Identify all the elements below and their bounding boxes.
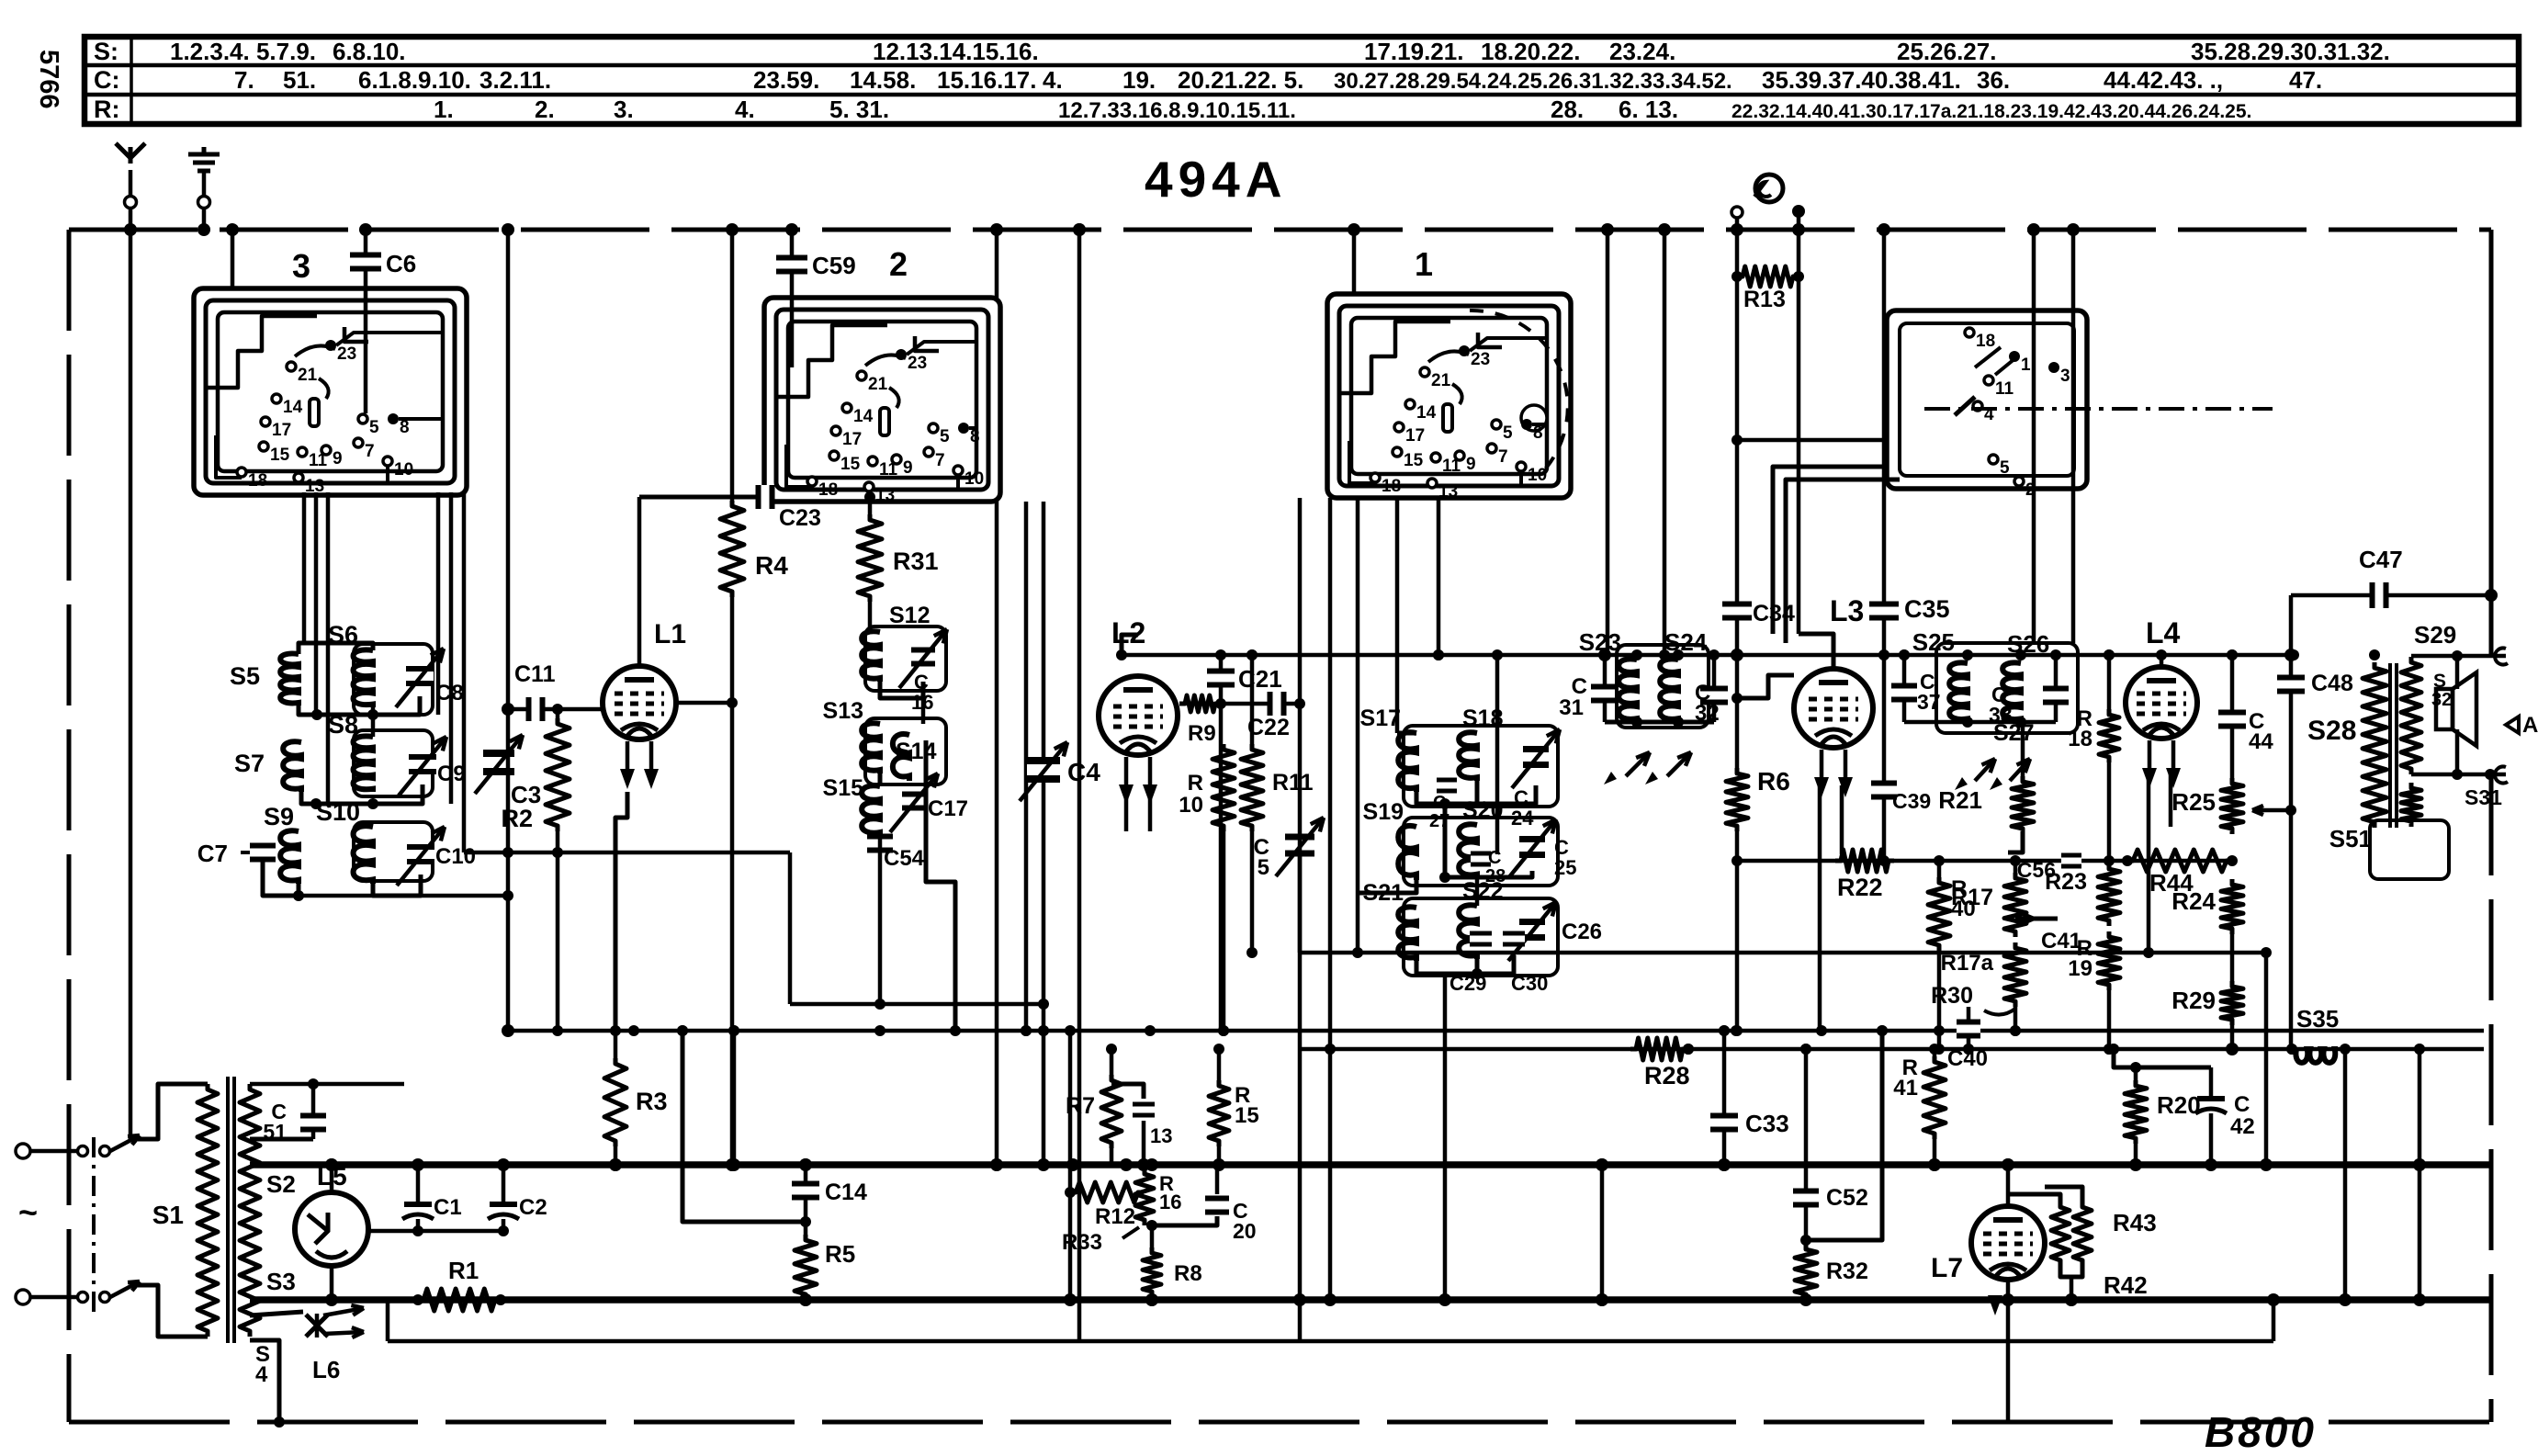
trimmer C3 variable bbox=[483, 757, 514, 768]
lamp terminals bbox=[1731, 207, 1743, 218]
wire R10 bottom bbox=[1222, 831, 1226, 1031]
wire x2494 bbox=[2289, 595, 2294, 1049]
coil bank wiring bbox=[299, 643, 373, 654]
wire L4 cathode bbox=[2147, 772, 2151, 953]
junction dots HT bus y1268 bbox=[325, 1158, 338, 1171]
resistor R30 wiper bbox=[1984, 1009, 2015, 1015]
resistor R15 bbox=[1217, 1049, 1222, 1080]
svg-text:17: 17 bbox=[1405, 426, 1425, 446]
svg-text:23: 23 bbox=[908, 354, 927, 373]
svg-text:C48: C48 bbox=[2311, 671, 2353, 696]
svg-text:R7: R7 bbox=[1066, 1093, 1095, 1119]
resistor R18 bbox=[2107, 655, 2112, 709]
svg-text:9: 9 bbox=[1466, 455, 1476, 474]
resistor R9 inline bbox=[1179, 695, 1221, 712]
svg-text:R33: R33 bbox=[1062, 1230, 1102, 1255]
capacitor C32 bbox=[1712, 655, 1717, 722]
svg-text:R28: R28 bbox=[1644, 1062, 1690, 1089]
wire y975 row bbox=[299, 894, 508, 898]
trimmer C25 bbox=[1519, 842, 1545, 852]
coil S24 bbox=[1660, 659, 1678, 722]
transformer wires bbox=[2373, 655, 2377, 660]
switch unit 4 box bbox=[1887, 310, 2087, 489]
wire x2467 bbox=[2264, 953, 2269, 1165]
svg-text:A: A bbox=[2522, 713, 2538, 738]
wire bus y1142 bbox=[1300, 1047, 2484, 1052]
svg-text:C2: C2 bbox=[519, 1195, 547, 1220]
trimmer C9 bbox=[409, 760, 436, 769]
S23 S24 wiring bbox=[1605, 720, 1714, 725]
resistor R13 bbox=[1737, 266, 1799, 287]
coil box S12 C16 bbox=[865, 626, 946, 691]
svg-text:35.28.29.30.31.32.: 35.28.29.30.31.32. bbox=[2191, 38, 2390, 65]
svg-text:14: 14 bbox=[1416, 403, 1437, 423]
capacitor C11 bbox=[508, 707, 603, 712]
wire L1 anode top bbox=[637, 497, 642, 667]
svg-text:C10: C10 bbox=[435, 844, 476, 869]
capacitor C6 bbox=[364, 230, 368, 413]
transformer core bbox=[2388, 663, 2392, 828]
wire C1 C2 bottom bbox=[367, 1229, 503, 1234]
transformer core bbox=[226, 1077, 230, 1343]
resistor R41 bbox=[1933, 1049, 1937, 1056]
unit1 block wiring bbox=[1397, 731, 1416, 736]
wire coil bank bottom right bbox=[464, 851, 790, 855]
svg-text:19: 19 bbox=[2068, 956, 2092, 981]
wire lamp left down bbox=[1735, 218, 1740, 655]
svg-text:4.: 4. bbox=[735, 96, 755, 123]
svg-text:4: 4 bbox=[255, 1362, 268, 1387]
switch contacts upper bbox=[78, 1146, 88, 1157]
coil box S19 S20 bbox=[1404, 818, 1558, 886]
svg-text:~: ~ bbox=[18, 1193, 38, 1231]
svg-text:1: 1 bbox=[2021, 356, 2031, 375]
capacitor C38 bbox=[2054, 655, 2059, 722]
svg-text:C26: C26 bbox=[1562, 920, 1602, 944]
coil box S23 S24 bbox=[1617, 645, 1709, 728]
transformer secondary bbox=[240, 1084, 260, 1337]
svg-text:R12: R12 bbox=[1095, 1204, 1135, 1229]
svg-text:494A: 494A bbox=[1145, 151, 1287, 208]
svg-text:L4: L4 bbox=[2146, 616, 2181, 649]
svg-text:L1: L1 bbox=[654, 619, 686, 649]
capacitor C42 bbox=[2209, 1067, 2214, 1098]
tube L1 bbox=[603, 666, 676, 739]
junction dots y1122 bbox=[552, 1025, 563, 1036]
svg-text:14: 14 bbox=[853, 407, 874, 426]
resistor R17a bbox=[2004, 942, 2026, 1007]
svg-text:8: 8 bbox=[1533, 423, 1543, 443]
svg-text:5: 5 bbox=[1258, 855, 1269, 880]
svg-text:20.21.22. 5.: 20.21.22. 5. bbox=[1178, 66, 1303, 94]
wire x2475 corner bbox=[2272, 1300, 2276, 1341]
tube L5 rectifier bbox=[330, 1165, 334, 1194]
S51 enclosure bbox=[2370, 820, 2449, 879]
svg-text:L7: L7 bbox=[1931, 1253, 1963, 1283]
coil S22 bbox=[1459, 905, 1477, 959]
capacitor C31 bbox=[1603, 655, 1607, 722]
svg-text:L6: L6 bbox=[312, 1356, 340, 1383]
capacitor C5 variable bbox=[1285, 841, 1314, 851]
resistor R28 bbox=[1630, 1038, 1688, 1060]
switch contacts lower bbox=[78, 1292, 88, 1303]
svg-text:3.: 3. bbox=[614, 96, 634, 123]
capacitor C1 bbox=[416, 1165, 421, 1203]
svg-text:18: 18 bbox=[1382, 477, 1401, 496]
resistor R8 bbox=[1150, 1225, 1155, 1247]
svg-text:S7: S7 bbox=[234, 750, 265, 777]
S25 block wiring bbox=[1904, 720, 2056, 725]
wire C47 row bbox=[2291, 593, 2491, 598]
svg-text:R3: R3 bbox=[636, 1088, 668, 1115]
trimmer C24 bbox=[1523, 752, 1549, 762]
wire S29 bottom row bbox=[2411, 773, 2506, 777]
wire secondary top bbox=[250, 1082, 404, 1087]
svg-text:6.8.10.: 6.8.10. bbox=[333, 38, 406, 65]
svg-text:35.39.37.40.38.41.: 35.39.37.40.38.41. bbox=[1762, 66, 1961, 94]
svg-text:R42: R42 bbox=[2104, 1271, 2148, 1299]
coil box S8 C9 bbox=[354, 730, 433, 796]
wire unit1 to bus bbox=[1352, 230, 1357, 294]
wires coil bank verticals up to unit3 bbox=[302, 492, 307, 643]
resistor R2 bbox=[556, 709, 560, 718]
wire L1 plate to x797 bbox=[676, 701, 732, 705]
capacitor C40 bbox=[1967, 1007, 1971, 1049]
svg-text:17.19.21.: 17.19.21. bbox=[1364, 38, 1463, 65]
svg-text:9: 9 bbox=[333, 449, 343, 468]
border right dashed bbox=[2489, 230, 2494, 656]
IF block wiring bbox=[868, 602, 873, 632]
coil S10 bbox=[354, 826, 373, 884]
capacitor C47 bbox=[2375, 582, 2384, 608]
parts table frame bbox=[85, 37, 2519, 124]
output transformer S28 primary bbox=[2363, 662, 2386, 828]
capacitor C21 bbox=[1219, 655, 1224, 1031]
svg-text:15: 15 bbox=[1235, 1103, 1259, 1128]
wire C52 jog bbox=[1806, 1031, 1882, 1240]
wire grid bus y713 bbox=[1122, 653, 2291, 658]
coil S18 bbox=[1459, 732, 1477, 781]
resistor R4 bbox=[730, 230, 735, 501]
border bottom dashed bbox=[69, 1420, 2491, 1425]
svg-text:R29: R29 bbox=[2171, 987, 2216, 1014]
svg-text:6. 13.: 6. 13. bbox=[1619, 96, 1678, 123]
wire C31 feed bbox=[1606, 230, 1610, 655]
svg-text:10: 10 bbox=[1528, 466, 1547, 485]
svg-text:4.: 4. bbox=[1043, 66, 1063, 94]
pilot lamp L6 bbox=[250, 1312, 303, 1315]
wire x1136 bbox=[1042, 1031, 1046, 1165]
svg-text:11: 11 bbox=[1995, 379, 2014, 399]
svg-text:S29: S29 bbox=[2414, 621, 2456, 649]
svg-text:R1: R1 bbox=[448, 1257, 479, 1284]
resistor R12 bbox=[1070, 1182, 1144, 1202]
capacitor C2 bbox=[502, 1165, 506, 1203]
resistor R22 bbox=[1835, 850, 1894, 872]
tube L3 bbox=[1799, 634, 1833, 670]
wire x1117 bbox=[1024, 502, 1029, 1031]
wire x2553 bbox=[2343, 1049, 2348, 1300]
svg-text:R6: R6 bbox=[1757, 767, 1790, 796]
wire S4 to bottom bbox=[250, 1340, 279, 1422]
svg-text:30.27.28.29.54.24.25.26.31.32.: 30.27.28.29.54.24.25.26.31.32.33.34.52. bbox=[1334, 69, 1732, 94]
svg-text:C23: C23 bbox=[779, 505, 821, 531]
svg-text:23: 23 bbox=[337, 344, 356, 364]
svg-text:C: C bbox=[1488, 848, 1501, 868]
svg-text:23.59.: 23.59. bbox=[753, 66, 819, 94]
wire unit4 bottom feed bbox=[1737, 438, 1887, 443]
svg-text:1.: 1. bbox=[434, 96, 454, 123]
trimmer C8 bbox=[406, 672, 434, 681]
svg-text:R43: R43 bbox=[2113, 1209, 2157, 1236]
svg-text:C7: C7 bbox=[197, 840, 228, 867]
svg-text:S5: S5 bbox=[230, 662, 260, 690]
capacitor C13 bbox=[1111, 1084, 1144, 1099]
wire x799 bbox=[732, 1031, 737, 1165]
coil box S25 S26 bbox=[1936, 643, 2078, 733]
svg-text:6.1.8.9.10.: 6.1.8.9.10. bbox=[358, 66, 471, 94]
svg-text:10: 10 bbox=[1179, 793, 1203, 818]
resistor R16 bbox=[1143, 1165, 1147, 1168]
svg-text:C39: C39 bbox=[1892, 789, 1931, 813]
svg-text:C21: C21 bbox=[1238, 665, 1282, 693]
capacitor C41 wiper bbox=[2015, 917, 2058, 921]
svg-text:C33: C33 bbox=[1745, 1110, 1789, 1137]
svg-text:C35: C35 bbox=[1904, 595, 1950, 623]
speaker terminal A bbox=[2506, 717, 2519, 733]
coil S15 bbox=[862, 785, 880, 836]
junction dots top bus bbox=[1073, 223, 1086, 236]
capacitor C7 bbox=[250, 849, 276, 857]
resistor R25 potentiometer bbox=[2221, 778, 2243, 834]
capacitor C37 bbox=[1902, 655, 1907, 722]
ground symbol bbox=[202, 173, 207, 224]
svg-text:S51: S51 bbox=[2329, 825, 2372, 852]
svg-text:R2: R2 bbox=[501, 805, 533, 832]
svg-text:S2: S2 bbox=[266, 1170, 296, 1198]
svg-text:L2: L2 bbox=[1111, 616, 1145, 649]
svg-text:S23: S23 bbox=[1579, 628, 1621, 656]
antenna terminal bbox=[129, 170, 133, 197]
svg-text:18.20.22.: 18.20.22. bbox=[1481, 38, 1580, 65]
wire x1165 long bbox=[1068, 1031, 1073, 1300]
coil S14 bbox=[893, 734, 909, 781]
svg-text:17: 17 bbox=[842, 430, 862, 449]
svg-text:C30: C30 bbox=[1511, 972, 1548, 995]
coil S21 bbox=[1398, 907, 1416, 961]
svg-text:R22: R22 bbox=[1837, 874, 1883, 901]
coil S6 bbox=[354, 649, 373, 707]
svg-text:R13: R13 bbox=[1743, 287, 1786, 312]
capacitor C29 bbox=[1470, 936, 1492, 942]
wire C23 row bbox=[639, 495, 765, 500]
svg-text:L3: L3 bbox=[1830, 594, 1864, 627]
svg-text:R25: R25 bbox=[2171, 788, 2216, 816]
wires unit4 routing left bbox=[1773, 467, 1887, 634]
wire x1744 down bbox=[1600, 1165, 1605, 1300]
svg-text:15: 15 bbox=[1404, 451, 1424, 470]
svg-text:R32: R32 bbox=[1826, 1258, 1868, 1284]
wires switch to transformer bbox=[138, 1084, 208, 1139]
switch unit 1 box bbox=[1327, 294, 1571, 498]
wires unit4 to bus bbox=[2032, 230, 2036, 643]
tube L7 bbox=[1971, 1206, 2045, 1280]
capacitor C28 bbox=[1471, 856, 1491, 863]
svg-text:51.: 51. bbox=[283, 66, 316, 94]
svg-text:C17: C17 bbox=[928, 796, 968, 821]
svg-text:44.42.43. .,: 44.42.43. ., bbox=[2104, 66, 2223, 94]
capacitor C59 bbox=[790, 230, 795, 367]
wire lamp right down bbox=[1797, 211, 1801, 634]
svg-text:7.: 7. bbox=[234, 66, 254, 94]
speaker S32 bbox=[2436, 689, 2453, 729]
svg-text:S:: S: bbox=[94, 38, 118, 65]
resistor R7 bbox=[1110, 1049, 1114, 1075]
resistor R21 bbox=[2021, 722, 2025, 776]
wire y1093 to x1136 bbox=[790, 1002, 1043, 1007]
wire L3 cathode bbox=[1818, 785, 1822, 1031]
svg-text:9: 9 bbox=[903, 458, 913, 478]
wire x1136 long bbox=[1042, 502, 1046, 1031]
svg-text:R23: R23 bbox=[2045, 869, 2087, 895]
resistor R31 bbox=[868, 497, 873, 514]
svg-text:S17: S17 bbox=[1360, 705, 1401, 731]
svg-text:S22: S22 bbox=[1462, 878, 1503, 904]
capacitor C30 bbox=[1503, 936, 1525, 942]
L3 wires bbox=[1737, 675, 1794, 698]
svg-text:S15: S15 bbox=[823, 775, 864, 801]
resistor R23 bbox=[2107, 762, 2112, 863]
wire L5 to R1 row bbox=[330, 1266, 334, 1300]
wire C54 down bbox=[878, 863, 883, 1004]
tube L2 bbox=[1099, 676, 1178, 755]
svg-text:R31: R31 bbox=[893, 547, 939, 575]
coil box S10 C10 bbox=[354, 822, 433, 881]
resistor R1 bbox=[418, 1289, 501, 1311]
svg-text:C59: C59 bbox=[812, 252, 856, 279]
svg-text:20: 20 bbox=[1233, 1219, 1257, 1243]
coil S13 bbox=[862, 723, 880, 773]
svg-text:44: 44 bbox=[2249, 729, 2273, 754]
svg-text:15: 15 bbox=[840, 455, 861, 474]
svg-text:R:: R: bbox=[94, 96, 120, 123]
svg-text:S24: S24 bbox=[1664, 628, 1708, 656]
svg-text:S26: S26 bbox=[2007, 630, 2049, 658]
svg-text:28.: 28. bbox=[1551, 96, 1584, 123]
svg-text:18: 18 bbox=[1976, 332, 1995, 351]
svg-text:19.: 19. bbox=[1122, 66, 1156, 94]
trimmer C10 bbox=[407, 850, 434, 859]
svg-text:21: 21 bbox=[868, 375, 888, 394]
wire bus y1037 bbox=[1300, 951, 2266, 955]
coil S17 bbox=[1398, 732, 1416, 792]
junction dots grid bus y713 bbox=[1116, 649, 1127, 660]
resistor R44 bbox=[2127, 850, 2232, 872]
svg-text:C47: C47 bbox=[2359, 546, 2403, 573]
svg-text:17: 17 bbox=[272, 421, 291, 440]
svg-text:12.13.14.15.16.: 12.13.14.15.16. bbox=[873, 38, 1039, 65]
svg-text:C1: C1 bbox=[434, 1195, 462, 1220]
svg-text:3: 3 bbox=[292, 247, 310, 285]
svg-text:R5: R5 bbox=[825, 1240, 855, 1268]
svg-text:8: 8 bbox=[970, 427, 980, 446]
capacitor C39 bbox=[1882, 655, 1887, 861]
coil S23 bbox=[1619, 659, 1637, 722]
svg-text:36.: 36. bbox=[1977, 66, 2010, 94]
svg-text:3.2.11.: 3.2.11. bbox=[479, 66, 551, 94]
svg-text:25: 25 bbox=[1554, 856, 1576, 879]
svg-text:2: 2 bbox=[889, 245, 908, 283]
capacitor C52 bbox=[1804, 1049, 1809, 1244]
wire S24 feed bbox=[1663, 230, 1667, 655]
coil S9 bbox=[280, 830, 299, 884]
svg-text:R4: R4 bbox=[755, 551, 788, 580]
svg-text:S25: S25 bbox=[1912, 628, 1955, 656]
resistor R17 bbox=[2013, 861, 2018, 873]
wire HT bus y1268 bbox=[250, 1161, 2491, 1168]
resistor R24 bbox=[2221, 879, 2243, 934]
svg-text:R9: R9 bbox=[1188, 721, 1216, 746]
coil S25 bbox=[1949, 662, 1968, 722]
capacitor C20 bbox=[1215, 1165, 1220, 1194]
svg-text:R30: R30 bbox=[1931, 983, 1973, 1009]
wire L7 cathode to bottom bbox=[2006, 1280, 2011, 1422]
svg-text:32: 32 bbox=[2431, 690, 2452, 710]
svg-text:16: 16 bbox=[1159, 1191, 1181, 1213]
svg-text:13: 13 bbox=[1438, 482, 1458, 502]
resistor R19 bbox=[2098, 931, 2120, 990]
wires unit1 down bbox=[1298, 498, 1303, 1341]
switch unit 2 box bbox=[764, 298, 1000, 502]
coil S26 bbox=[2002, 662, 2021, 722]
svg-text:C11: C11 bbox=[514, 661, 556, 687]
coil S8 bbox=[354, 736, 373, 792]
svg-text:R8: R8 bbox=[1174, 1261, 1202, 1286]
svg-text:S31: S31 bbox=[2465, 785, 2502, 809]
svg-text:7: 7 bbox=[365, 442, 375, 461]
resistor R43 bbox=[2045, 1187, 2082, 1202]
svg-text:10: 10 bbox=[394, 460, 413, 480]
capacitor C44 bbox=[2230, 655, 2235, 778]
dial lamp bbox=[1755, 175, 1783, 202]
svg-text:R11: R11 bbox=[1272, 770, 1314, 796]
coil S20 bbox=[1459, 824, 1477, 878]
svg-text:13: 13 bbox=[875, 486, 895, 505]
capacitor C34 bbox=[1722, 607, 1752, 615]
svg-text:8: 8 bbox=[400, 418, 410, 437]
svg-text:S19: S19 bbox=[1363, 799, 1404, 825]
svg-text:2.: 2. bbox=[535, 96, 555, 123]
wire ground bus y1415 bbox=[250, 1296, 2491, 1304]
wire L2 topcap bbox=[1122, 635, 1138, 655]
svg-text:S: S bbox=[2433, 671, 2446, 692]
trimmer C16 bbox=[911, 653, 935, 661]
svg-text:C34: C34 bbox=[1753, 601, 1795, 626]
svg-text:7: 7 bbox=[935, 451, 945, 470]
svg-text:42: 42 bbox=[2230, 1114, 2255, 1139]
svg-text:C: C bbox=[2234, 1092, 2250, 1117]
wire C22 row bbox=[1221, 702, 1300, 706]
svg-text:R17a: R17a bbox=[1941, 951, 1994, 976]
svg-text:10: 10 bbox=[964, 469, 984, 489]
border top dashed bbox=[69, 228, 2491, 232]
coil box S13 S14 bbox=[865, 718, 946, 784]
svg-text:25.26.27.: 25.26.27. bbox=[1897, 38, 1996, 65]
output hook terminals bbox=[2495, 648, 2508, 664]
resistor R3 bbox=[614, 1031, 618, 1058]
mains terminal upper bbox=[16, 1144, 30, 1158]
secondary S51 bbox=[2401, 783, 2421, 827]
